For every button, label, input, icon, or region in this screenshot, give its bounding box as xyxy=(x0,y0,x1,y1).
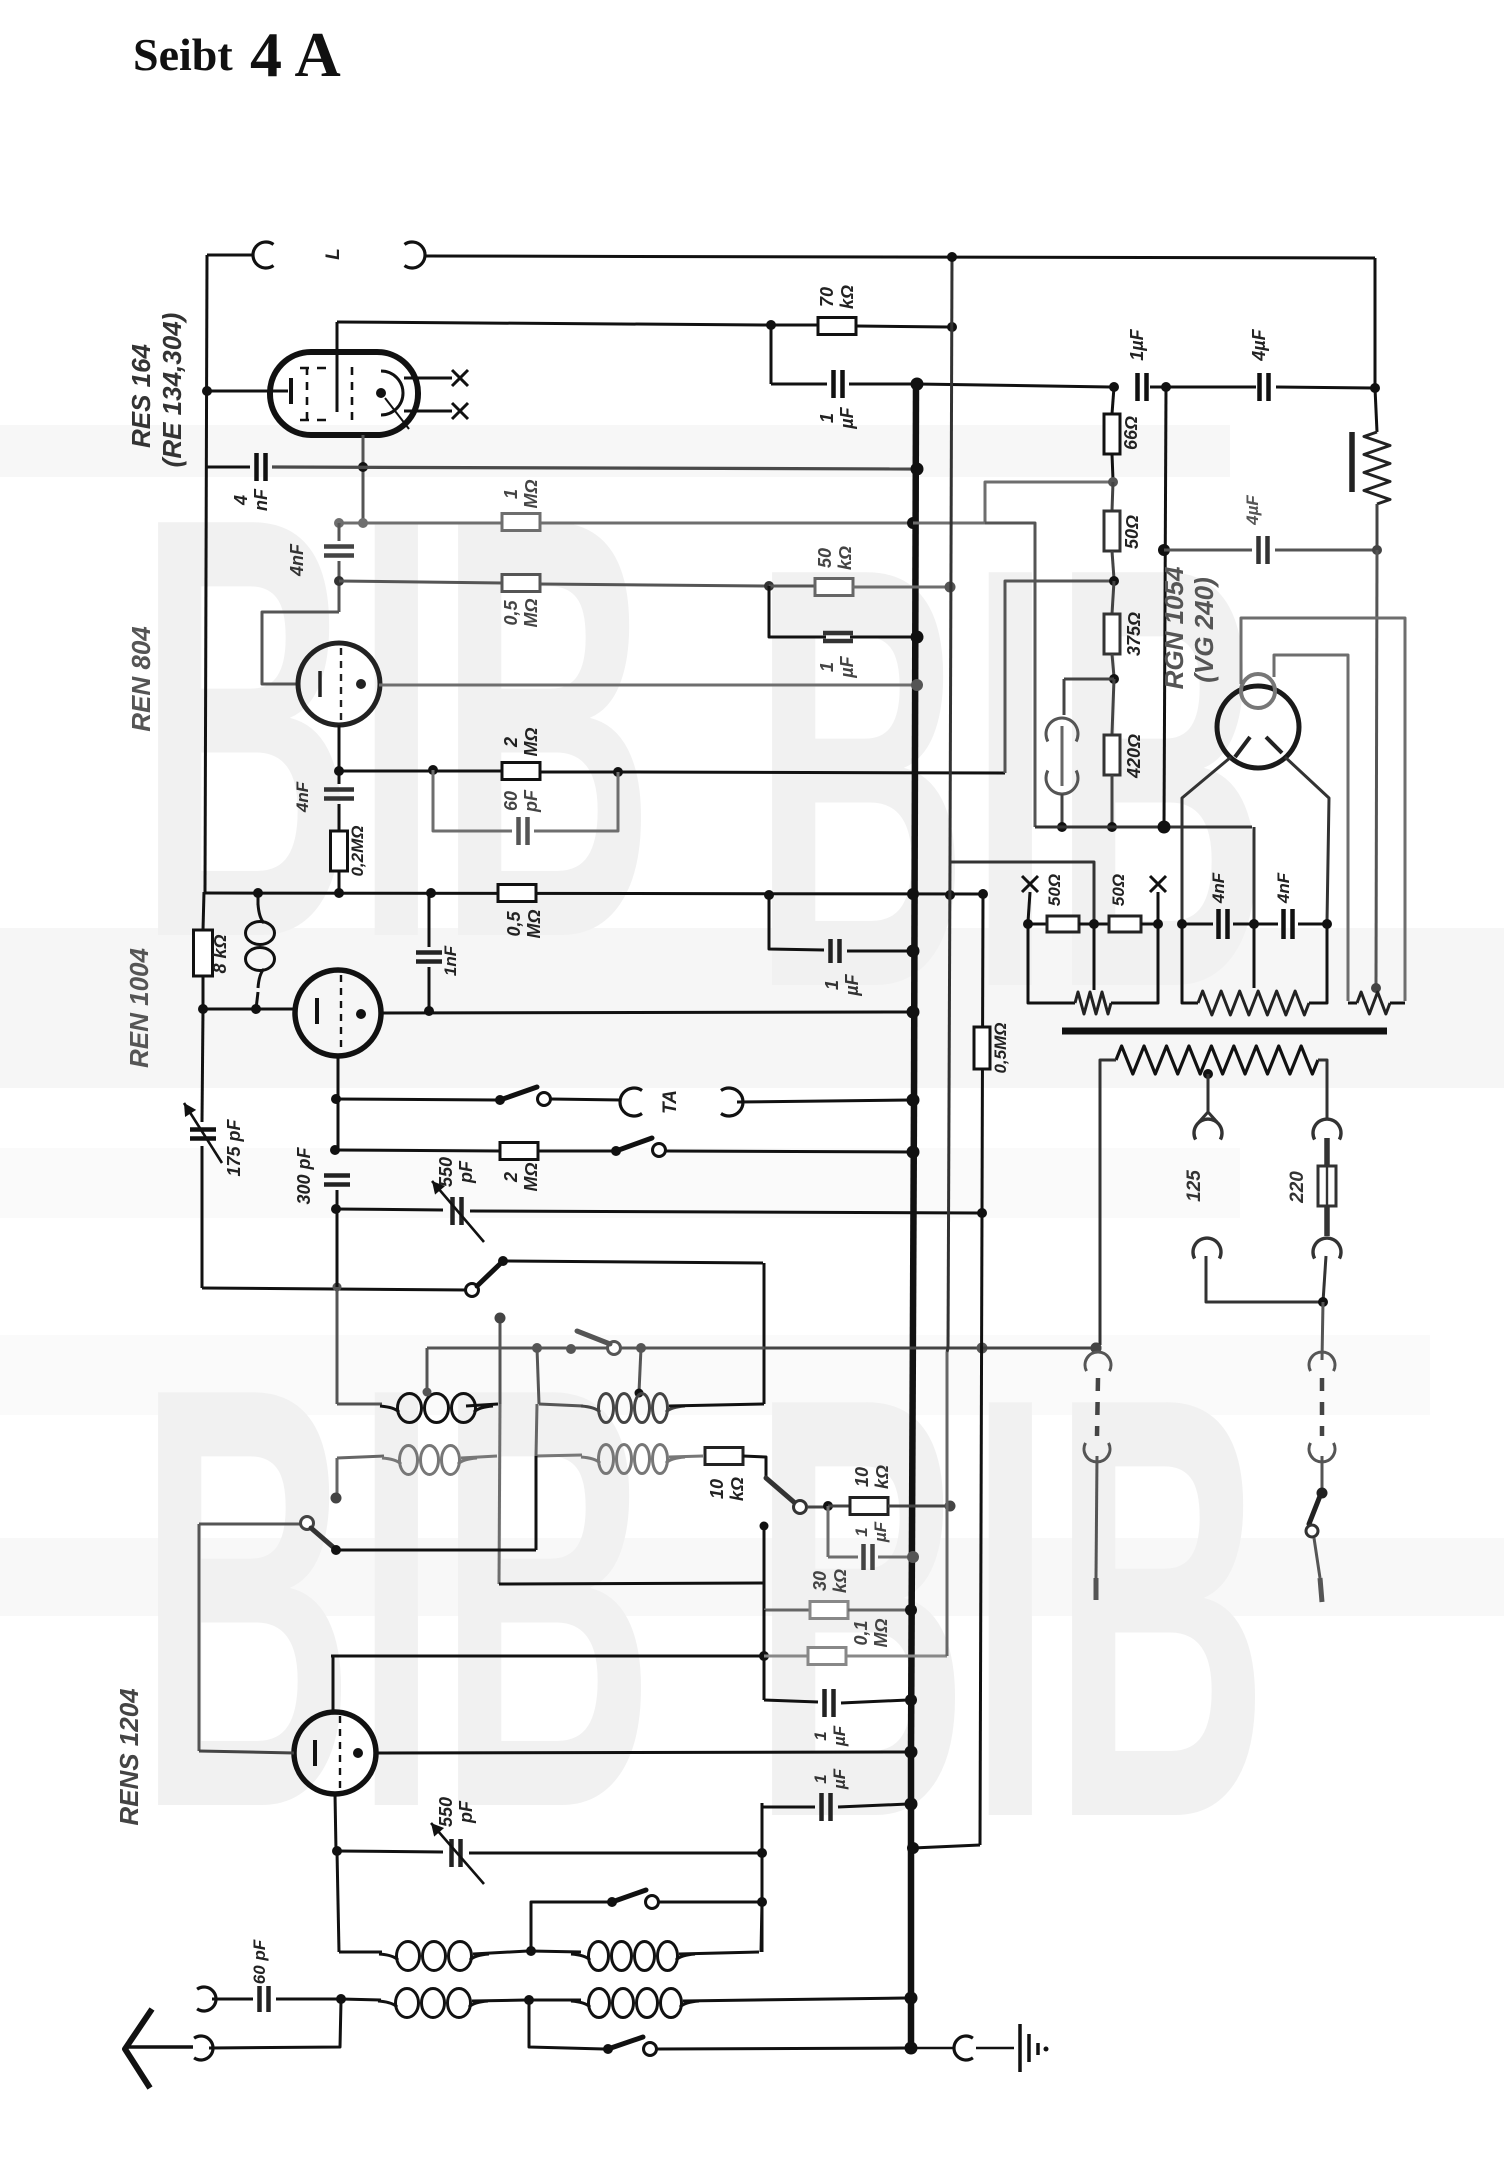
resistor 0,5 MOhm leak xyxy=(974,1027,990,1069)
capacitor 60 pF parallel 2M xyxy=(433,770,512,831)
wire V2 jog to pot xyxy=(950,862,1094,920)
coil LA2 xyxy=(531,1951,581,1952)
terminal antenna jack 1 xyxy=(197,1987,216,2011)
mains tap 125 xyxy=(1207,1074,1210,1112)
svg-text:4nF: 4nF xyxy=(1209,872,1228,904)
svg-text:4nF: 4nF xyxy=(293,781,312,813)
antenna symbol xyxy=(125,2009,152,2088)
wire RENS anode row xyxy=(376,1752,908,1753)
svg-text:60pF: 60pF xyxy=(501,789,541,813)
wire REN804 cathode xyxy=(338,725,341,771)
svg-text:1µF: 1µF xyxy=(1127,328,1147,360)
svg-text:60 pF: 60 pF xyxy=(250,1939,269,1984)
svg-text:0,1MΩ: 0,1MΩ xyxy=(851,1618,891,1647)
wire RES164 grid row xyxy=(207,390,288,393)
svg-text:1nF: 1nF xyxy=(441,945,460,976)
wire main ground bus (thick) xyxy=(914,384,916,1100)
terminal antenna jack 2 xyxy=(194,2036,213,2060)
resistor 420 Ohm xyxy=(1112,679,1114,734)
wire grid path REN804 xyxy=(262,612,339,684)
capacitor 1uF 3 xyxy=(762,1803,815,1807)
transformer core bar xyxy=(1062,1028,1387,1035)
switch ground row xyxy=(529,2000,604,2049)
svg-text:TA: TA xyxy=(660,1090,681,1114)
resistor 0,5 MOhm rail xyxy=(498,885,536,902)
coil L4 right (gray) xyxy=(536,1455,582,1456)
coil LB1 xyxy=(378,2001,397,2007)
svg-text:4 A: 4 A xyxy=(250,19,341,90)
resistor 0,1 MOhm xyxy=(331,1655,761,1658)
svg-text:RGN 1054: RGN 1054 xyxy=(1159,566,1189,689)
svg-text:Seibt: Seibt xyxy=(133,29,233,80)
potentiometer hum xyxy=(1375,388,1377,432)
wire TA row xyxy=(331,1094,341,1104)
svg-text:(VG 240): (VG 240) xyxy=(1189,577,1219,683)
switch TA xyxy=(500,1087,537,1100)
heater winding rect xyxy=(1348,1002,1357,1005)
filament X leads of RES164 xyxy=(404,377,452,380)
wire 2M row xyxy=(330,1145,340,1155)
resistor 0,2 MOhm xyxy=(331,831,348,871)
wire row to REN1004 xyxy=(203,1008,296,1011)
wire left vertical to RENS grid xyxy=(198,1524,201,1751)
svg-text:REN 804: REN 804 xyxy=(126,626,156,732)
wire to fil winding center xyxy=(1376,550,1377,986)
tube RGN 1054 (VG240) xyxy=(1217,686,1299,768)
svg-text:550pF: 550pF xyxy=(436,1797,476,1827)
wire tap to L2 xyxy=(639,1348,641,1392)
switch wave change A xyxy=(466,1284,479,1297)
svg-text:420Ω: 420Ω xyxy=(1124,734,1144,779)
wire 550pF row xyxy=(336,1190,339,1209)
wire anode row to 70k xyxy=(337,322,771,325)
wire x762 vertical xyxy=(761,1803,764,1952)
wire heater return row y827 xyxy=(1035,826,1252,829)
wire SW-A row xyxy=(202,1288,468,1290)
resistor 70 kOhm xyxy=(818,318,856,335)
wire to L2 right xyxy=(763,1263,766,1404)
wire bias row to right xyxy=(618,772,1005,773)
resistor 50 kOhm xyxy=(815,579,853,596)
svg-text:220: 220 xyxy=(1287,1171,1308,1204)
svg-text:300 pF: 300 pF xyxy=(294,1146,314,1204)
coil L2 xyxy=(581,1406,600,1412)
coil LA1 xyxy=(379,1954,398,1960)
wire RGN plate leads xyxy=(1182,757,1231,922)
svg-text:0,2MΩ: 0,2MΩ xyxy=(348,825,367,876)
capacitor 1uF anode bypass xyxy=(831,370,836,398)
wire x537 vertical xyxy=(536,1404,537,1456)
resistor 10 kOhm 2 xyxy=(828,1505,850,1508)
mains lead left xyxy=(1091,1343,1102,1354)
barretter lamp xyxy=(1064,678,1114,681)
wire X heater taps xyxy=(1028,892,1030,922)
switch K xyxy=(766,1478,795,1503)
wire right corner down to cap row xyxy=(1374,258,1377,388)
switch mains xyxy=(1317,1488,1328,1499)
wire V2 bias line xyxy=(950,257,952,862)
coil LB2 xyxy=(529,1999,581,2002)
capacitor 4nF det xyxy=(338,771,341,784)
svg-text:550pF: 550pF xyxy=(436,1157,476,1187)
capacitor 550 pF 2 variable xyxy=(337,1851,443,1852)
resistor 2 MOhm cathode xyxy=(502,763,540,780)
wire RES164 top lead xyxy=(336,322,339,412)
loudspeaker terminal arcs L xyxy=(253,242,274,268)
svg-text:10kΩ: 10kΩ xyxy=(707,1477,747,1501)
capacitor 1nF xyxy=(428,895,431,947)
wire left main vertical xyxy=(205,255,207,892)
capacitor 4nF a xyxy=(1182,923,1213,926)
svg-text:50Ω: 50Ω xyxy=(1045,874,1064,906)
wire grid leak row 0,5M + 50k xyxy=(339,581,502,583)
svg-text:30kΩ: 30kΩ xyxy=(810,1569,850,1593)
wire V3 0,5M leak line xyxy=(982,894,983,1213)
wire antenna coil row 1 xyxy=(337,1851,339,1952)
wire grid rail y893 xyxy=(204,893,981,894)
wire 70k bypass branch xyxy=(770,325,773,384)
svg-text:4µF: 4µF xyxy=(1243,495,1262,526)
wire B+ row via 1M xyxy=(339,522,913,525)
wire REN1004 anode row xyxy=(381,1012,911,1013)
tube REN 1004 xyxy=(295,970,381,1056)
wire cap row to right xyxy=(917,384,1110,387)
resistor 0,5 MOhm xyxy=(502,575,540,592)
wire RENS grid row xyxy=(199,1751,294,1753)
wire L1 right to stud xyxy=(499,1320,502,1404)
wire heater row y1348 xyxy=(427,1347,764,1350)
resistor 66 Ohm xyxy=(1112,387,1114,414)
svg-text:375Ω: 375Ω xyxy=(1124,612,1144,656)
svg-text:70kΩ: 70kΩ xyxy=(817,285,857,309)
wire RGN filament leads xyxy=(1241,618,1405,1001)
resistor 1 MOhm xyxy=(502,514,540,531)
resistor 30 kOhm xyxy=(764,1609,810,1612)
wire x1164 vertical xyxy=(1164,387,1166,827)
capacitor 1uF 2 xyxy=(764,1700,818,1702)
capacitor 1uF on 50k row xyxy=(769,586,826,637)
node main bus top xyxy=(911,378,924,391)
capacitor 1uF rail bypass xyxy=(769,895,824,950)
svg-text:4nF: 4nF xyxy=(287,543,307,577)
wire antenna row xyxy=(209,2001,341,2048)
terminal + earth ground xyxy=(916,2047,955,2049)
capacitor 175 pF variable xyxy=(190,1127,216,1132)
svg-text:8 kΩ: 8 kΩ xyxy=(210,934,230,973)
resistor 10 kOhm xyxy=(705,1448,743,1465)
resistor 50 Ohm b xyxy=(1094,923,1108,926)
capacitor 4nF cathode xyxy=(207,466,250,469)
capacitor 550 pF variable xyxy=(450,1197,455,1225)
switch LA2 short xyxy=(531,1902,608,1951)
capacitor 4nF b xyxy=(1254,923,1278,926)
svg-text:66Ω: 66Ω xyxy=(1121,416,1141,450)
wire antenna coil row 2 xyxy=(341,1999,381,2000)
svg-text:(RE 134,304): (RE 134,304) xyxy=(157,313,187,468)
wire RENS cathode down xyxy=(335,1794,336,1851)
resistor 8 kOhm in left vertical xyxy=(194,930,213,976)
tube RENS 1204 xyxy=(294,1712,376,1794)
svg-text:50Ω: 50Ω xyxy=(1109,874,1128,906)
svg-text:50kΩ: 50kΩ xyxy=(815,546,855,570)
svg-text:4µF: 4µF xyxy=(1249,328,1269,361)
capacitor 1uF PSU xyxy=(1109,382,1119,392)
capacitor 4uF 2 xyxy=(1164,549,1252,552)
resistor 50 Ohm a xyxy=(1023,919,1033,929)
wire RES164 cathode lead down xyxy=(362,435,365,521)
svg-text:50Ω: 50Ω xyxy=(1122,515,1142,549)
mains lead right with switch xyxy=(1322,1302,1323,1360)
tube RES164 (RE134,304) xyxy=(270,352,418,435)
wire 66R return path xyxy=(985,482,1109,523)
svg-text:10kΩ: 10kΩ xyxy=(852,1465,892,1489)
terminal TA jacks xyxy=(620,1088,642,1116)
svg-text:0,5MΩ: 0,5MΩ xyxy=(501,598,541,627)
tube REN 804 xyxy=(298,643,380,725)
mains tap 220 fuse xyxy=(1313,1119,1341,1139)
svg-text:4nF: 4nF xyxy=(1274,872,1293,904)
capacitor 4uF PSU xyxy=(1257,373,1262,401)
svg-text:0,5MΩ: 0,5MΩ xyxy=(991,1022,1010,1073)
potentiometer 50 Ohm arms xyxy=(1028,924,1075,1003)
svg-text:175 pF: 175 pF xyxy=(224,1118,244,1176)
capacitor 300 pF xyxy=(324,1173,350,1178)
coil L1 xyxy=(380,1406,399,1412)
wire from dot537 to L2 left xyxy=(537,1348,539,1404)
svg-text:REN 1004: REN 1004 xyxy=(124,947,154,1067)
switch 2M row xyxy=(616,1138,652,1151)
capacitor 60 pF antenna xyxy=(212,1998,253,2001)
wire cathode vertical to coil L1 xyxy=(337,1189,340,1192)
svg-text:125: 125 xyxy=(1184,1170,1205,1202)
svg-text:RES 164: RES 164 xyxy=(126,343,156,448)
capacitor 1uF bias xyxy=(827,1506,830,1557)
capacitor 4nF grid REN804 xyxy=(338,523,341,541)
wire switch C row xyxy=(199,1523,303,1526)
switch B xyxy=(608,1342,621,1355)
resistor 50 Ohm chain xyxy=(1112,482,1113,511)
svg-text:BIB: BIB xyxy=(138,1262,655,1932)
svg-text:RENS 1204: RENS 1204 xyxy=(114,1688,144,1826)
svg-text:L: L xyxy=(323,248,344,260)
coil L3 left (gray) xyxy=(336,1458,339,1495)
wire RENS top lead xyxy=(332,1656,335,1712)
resistor 375 Ohm xyxy=(1112,581,1114,614)
wire REN804 anode row xyxy=(379,684,914,687)
svg-text:0,5MΩ: 0,5MΩ xyxy=(504,909,544,938)
wire REN1004 cathode down xyxy=(337,1056,340,1150)
resistor 2 MOhm AF xyxy=(500,1143,538,1160)
coil parallel 8k xyxy=(258,904,264,923)
primary winding xyxy=(1116,1046,1318,1074)
heater winding 2 xyxy=(1182,924,1198,1003)
wire top row right xyxy=(426,256,1375,258)
wire top row to loudspeaker terminals xyxy=(207,254,254,257)
